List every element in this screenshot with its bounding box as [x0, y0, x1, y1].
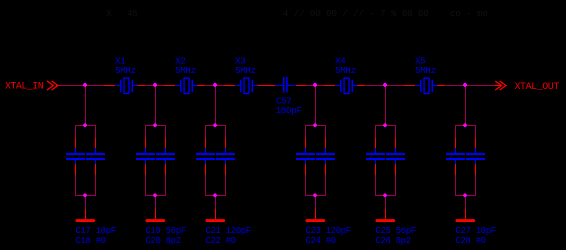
svg-text:C25 56pF: C25 56pF — [375, 226, 415, 236]
svg-text:C27 18pF: C27 18pF — [455, 226, 495, 236]
svg-text:XTAL_OUT: XTAL_OUT — [515, 82, 560, 93]
svg-text:180pF: 180pF — [276, 105, 302, 116]
svg-text:X: X — [106, 9, 112, 19]
svg-text:5MHz: 5MHz — [175, 65, 196, 76]
svg-text:co - mo: co - mo — [450, 9, 488, 19]
svg-text:5MHz: 5MHz — [415, 65, 436, 76]
svg-text:C21 120pF: C21 120pF — [205, 226, 250, 236]
svg-text:5MHz: 5MHz — [115, 65, 136, 76]
svg-text:C17 18pF: C17 18pF — [75, 226, 115, 236]
svg-text:C22 #0: C22 #0 — [205, 236, 235, 246]
svg-text:C20 8p2: C20 8p2 — [145, 236, 180, 246]
svg-text:C26 8p2: C26 8p2 — [375, 236, 410, 246]
svg-text:5MHz: 5MHz — [235, 65, 256, 76]
svg-text:4S: 4S — [127, 9, 138, 19]
svg-text:XTAL_IN: XTAL_IN — [5, 82, 44, 93]
svg-text:4 // 00 00 / // - 7 % 00 00: 4 // 00 00 / // - 7 % 00 00 — [283, 9, 429, 19]
svg-text:C18 #0: C18 #0 — [75, 236, 105, 246]
svg-text:C28 #0: C28 #0 — [455, 236, 485, 246]
svg-text:C23 120pF: C23 120pF — [305, 226, 350, 236]
svg-text:5MHz: 5MHz — [335, 65, 356, 76]
svg-text:C24 #0: C24 #0 — [305, 236, 335, 246]
svg-text:C19 56pF: C19 56pF — [145, 226, 185, 236]
